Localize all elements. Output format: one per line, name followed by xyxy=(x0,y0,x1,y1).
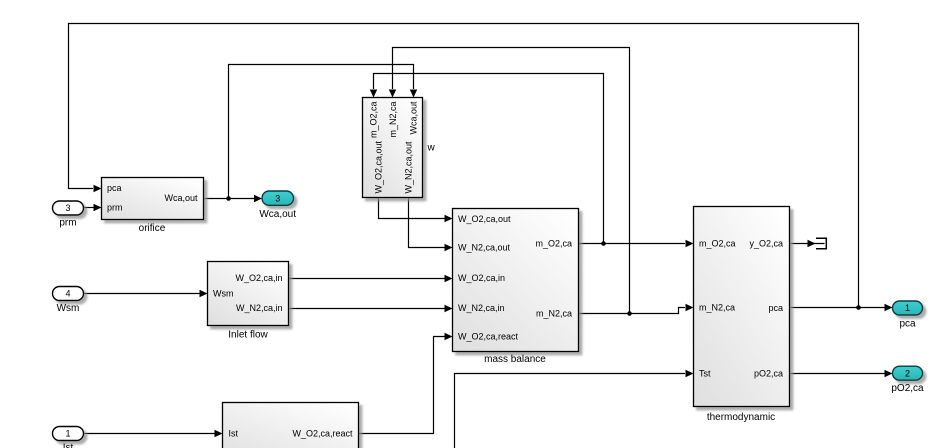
block thermodynamic xyxy=(694,207,790,424)
arrowhead mass balance in3 xyxy=(445,275,453,282)
junction dot m_N2,ca xyxy=(627,311,632,316)
svg-text:Ist: Ist xyxy=(63,443,74,448)
svg-text:W_O2,ca,out: W_O2,ca,out xyxy=(458,214,511,224)
wire branch m_N2,ca up to w top port 2 xyxy=(393,48,630,314)
wire branch Wca,out up to w block top port 3 xyxy=(229,65,414,199)
arrowhead w top port1 xyxy=(370,90,377,98)
block cathode reaction (cut off at bottom) xyxy=(223,403,359,448)
svg-text:Inlet flow: Inlet flow xyxy=(228,330,268,341)
svg-text:Tst: Tst xyxy=(699,368,711,378)
svg-text:W_N2,ca,out: W_N2,ca,out xyxy=(458,243,511,253)
svg-text:1: 1 xyxy=(905,303,910,313)
svg-text:Ist: Ist xyxy=(229,429,239,439)
svg-text:m_O2,ca: m_O2,ca xyxy=(699,239,736,249)
terminator symbol xyxy=(816,238,826,248)
svg-text:m_N2,ca: m_N2,ca xyxy=(536,309,572,319)
arrowhead orifice pca xyxy=(94,185,102,192)
wire Tst from bottom to thermodynamic xyxy=(455,374,686,448)
outport 1 pca xyxy=(893,301,923,330)
svg-text:pca: pca xyxy=(107,183,122,193)
svg-text:Wca,out: Wca,out xyxy=(409,101,419,135)
svg-text:m_N2,ca: m_N2,ca xyxy=(388,102,398,138)
junction dot Wca,out xyxy=(226,196,231,201)
arrowhead mass balance in2 xyxy=(445,244,453,251)
svg-text:W_N2,ca,in: W_N2,ca,in xyxy=(236,303,283,313)
svg-text:y_O2,ca: y_O2,ca xyxy=(749,239,783,249)
svg-text:4: 4 xyxy=(65,289,70,299)
arrowhead terminator xyxy=(808,240,816,247)
junction dot pca xyxy=(856,305,861,310)
arrowhead outport 2 xyxy=(885,370,893,377)
svg-text:W_N2,ca,out: W_N2,ca,out xyxy=(403,141,413,194)
inport 3 prm xyxy=(53,201,84,229)
svg-text:W_O2,ca,react: W_O2,ca,react xyxy=(292,429,353,439)
wire Inlet flow W_N2,ca,in to mass balance xyxy=(289,308,445,310)
svg-text:Wca,out: Wca,out xyxy=(259,209,296,220)
wire branch m_O2,ca up to w top port 1 xyxy=(374,74,604,244)
arrowhead outport 3 xyxy=(254,195,262,202)
svg-text:pO2,ca: pO2,ca xyxy=(754,368,783,378)
wire w W_O2,ca,out to mass balance in1 xyxy=(379,198,445,219)
wire thermodynamic pO2,ca to outport 2 xyxy=(790,373,885,375)
wire orifice Wca,out to outport 3 xyxy=(204,198,255,200)
svg-text:W_O2,ca,in: W_O2,ca,in xyxy=(458,273,505,283)
arrowhead w top port3 xyxy=(410,90,417,98)
arrowhead mass balance in5 xyxy=(445,333,453,340)
svg-text:orifice: orifice xyxy=(139,223,166,234)
junction dot m_O2,ca xyxy=(601,241,606,246)
svg-text:m_N2,ca: m_N2,ca xyxy=(699,303,735,313)
wire Inlet flow W_O2,ca,in to mass balance xyxy=(289,278,445,280)
arrowhead mass balance in1 xyxy=(445,215,453,222)
arrowhead orifice prm xyxy=(94,204,102,211)
svg-text:pO2,ca: pO2,ca xyxy=(891,383,924,394)
inport 1 Ist xyxy=(53,427,84,448)
inport 4 Wsm xyxy=(53,287,84,315)
svg-text:prm: prm xyxy=(59,218,76,229)
svg-text:1: 1 xyxy=(65,429,70,439)
svg-text:3: 3 xyxy=(65,203,70,213)
svg-text:m_O2,ca: m_O2,ca xyxy=(535,239,572,249)
svg-text:mass balance: mass balance xyxy=(484,354,546,365)
svg-text:Wsm: Wsm xyxy=(57,303,80,314)
wire inport 1 Ist to reaction block xyxy=(84,433,215,435)
svg-text:m_O2,ca: m_O2,ca xyxy=(369,102,379,139)
svg-text:W_O2,ca,react: W_O2,ca,react xyxy=(458,332,519,342)
wire w W_N2,ca,out to mass balance in2 xyxy=(409,198,445,248)
wire mass balance m_N2,ca to thermodynamic xyxy=(579,308,686,314)
svg-text:pca: pca xyxy=(768,303,783,313)
arrowhead w top port2 xyxy=(389,90,396,98)
svg-text:W_N2,ca,in: W_N2,ca,in xyxy=(458,303,505,313)
svg-text:2: 2 xyxy=(905,368,910,378)
svg-text:W_O2,ca,in: W_O2,ca,in xyxy=(235,273,282,283)
wire mass balance m_O2,ca to thermodynamic xyxy=(579,243,686,245)
wire thermodynamic y_O2,ca to terminator xyxy=(790,243,825,245)
outport 3 Wca,out xyxy=(259,191,296,220)
wire inport 4 Wsm to Inlet flow xyxy=(84,293,200,295)
arrowhead outport 1 xyxy=(885,304,893,311)
svg-text:3: 3 xyxy=(275,193,280,203)
svg-text:thermodynamic: thermodynamic xyxy=(707,412,775,423)
wire pca feedback: junction(858.5,308) up, left, down to orifice pca xyxy=(69,24,859,308)
block mass balance xyxy=(453,209,579,366)
wire inport 3 prm to orifice xyxy=(84,207,94,209)
wire reaction W_O2,ca,react to mass balance in5 xyxy=(359,337,445,434)
svg-text:Wca,out: Wca,out xyxy=(164,193,198,203)
arrowhead thermodynamic m_N2,ca xyxy=(686,304,694,311)
svg-text:prm: prm xyxy=(107,203,123,213)
svg-text:W_O2,ca,out: W_O2,ca,out xyxy=(373,140,383,193)
arrowhead mass balance in4 xyxy=(445,305,453,312)
svg-text:pca: pca xyxy=(899,319,916,330)
arrowhead Inlet flow Wsm xyxy=(200,290,208,297)
svg-text:w: w xyxy=(427,143,436,154)
wire thermodynamic pca to outport 1 xyxy=(790,307,885,309)
svg-text:Wsm: Wsm xyxy=(213,289,234,299)
block w (rotated subsystem) xyxy=(363,98,436,198)
arrowhead thermodynamic Tst xyxy=(686,370,694,377)
arrowhead thermodynamic m_O2,ca xyxy=(686,240,694,247)
outport 2 pO2,ca xyxy=(891,366,924,394)
arrowhead reaction Ist xyxy=(215,430,223,437)
block Inlet flow xyxy=(208,262,289,341)
block orifice xyxy=(102,178,204,235)
